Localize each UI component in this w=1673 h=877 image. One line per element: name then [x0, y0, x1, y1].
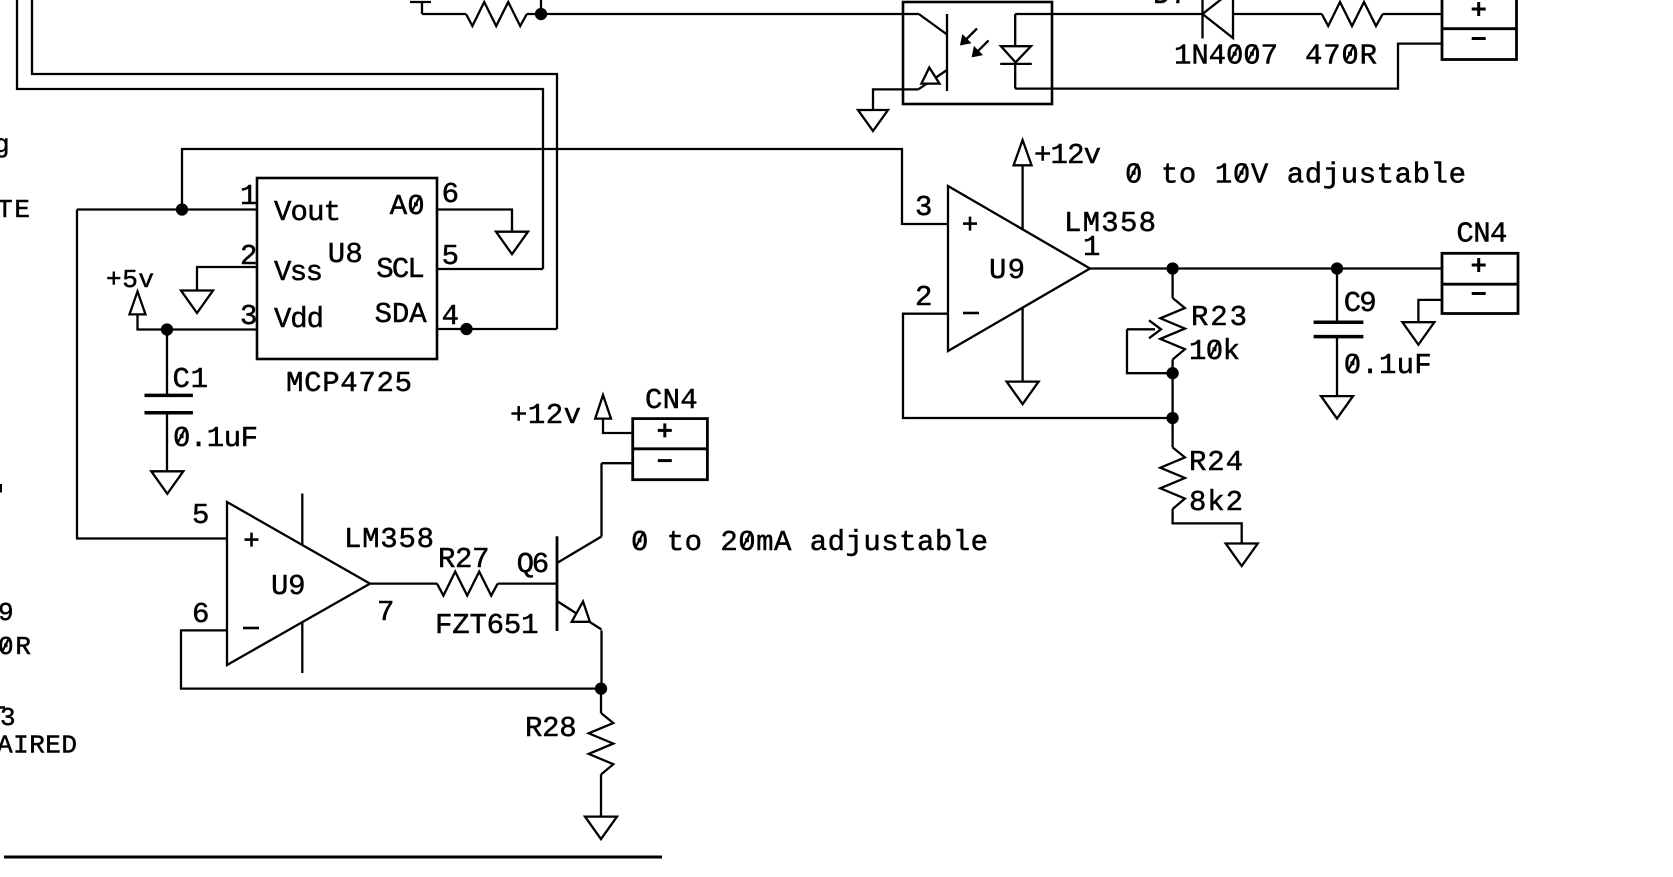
node output junction at C9	[1332, 264, 1342, 274]
svg-text:3: 3	[915, 191, 932, 224]
svg-text:g: g	[0, 130, 10, 160]
wire R24 to ground	[1173, 509, 1242, 544]
wire Vout down-left to op-amp pin 5	[77, 210, 227, 539]
wire opto LED anode to diode	[1052, 13, 1203, 15]
wire CN4 minus to Q6 collector	[602, 462, 633, 464]
wire CN minus to LED cathode	[1052, 44, 1442, 89]
wire SCL pin 5	[437, 268, 543, 270]
svg-text:+12v: +12v	[1034, 139, 1101, 172]
resistor R (top left, unlabeled)	[466, 2, 527, 26]
node emitter junction	[596, 684, 606, 694]
wire Q6 emitter down	[600, 630, 602, 688]
svg-text:TE: TE	[0, 195, 30, 225]
wire A0 pin 6 to ground	[437, 210, 512, 232]
node feedback junction	[1168, 413, 1178, 423]
ground (C1)	[151, 471, 183, 494]
resistor R27	[437, 572, 498, 596]
wire op-amp pin 6 feedback	[181, 630, 601, 688]
wire SDA pin 4	[437, 328, 557, 330]
wire +12v to op-amp V+	[1021, 165, 1023, 229]
svg-text:R27: R27	[438, 543, 490, 576]
wire stub from above into top resistor	[410, 2, 466, 14]
svg-text:+12v: +12v	[510, 399, 581, 432]
wire resistor to optocoupler	[527, 13, 903, 15]
wire I2C bus SDA from top-left	[32, 0, 557, 329]
svg-text:AIRED: AIRED	[0, 731, 77, 761]
svg-text:1: 1	[1083, 231, 1100, 264]
optocoupler U? box	[903, 2, 1052, 104]
svg-text:LM358: LM358	[1064, 207, 1156, 240]
svg-text:0.1uF: 0.1uF	[1344, 349, 1432, 382]
svg-text:1N4007: 1N4007	[1174, 39, 1278, 72]
ground (R24)	[1226, 544, 1258, 567]
label + (non-inverting input lower)	[245, 533, 259, 547]
svg-text:R23: R23	[1191, 301, 1247, 334]
wire +12v to CN4 plus	[603, 419, 633, 433]
capacitor C9	[1314, 269, 1364, 397]
wire op-amp pin 2 feedback	[903, 314, 1173, 418]
svg-text:Q6: Q6	[517, 548, 550, 581]
partial glyph (left margin, clipped)	[0, 484, 2, 493]
power +12v arrow (middle)	[595, 395, 611, 419]
node R23 bottom junction	[1168, 368, 1178, 378]
optocoupler phototransistor	[903, 14, 947, 91]
svg-text:CN4: CN4	[1456, 218, 1507, 251]
connector CN4 (middle)	[633, 419, 708, 480]
wire CN4 minus to ground	[1418, 300, 1442, 322]
svg-text:SDA: SDA	[375, 298, 428, 331]
svg-text:C1: C1	[173, 363, 209, 396]
svg-text:7: 7	[377, 596, 394, 629]
svg-text:0 to 20mA adjustable: 0 to 20mA adjustable	[631, 526, 988, 559]
svg-text:6: 6	[442, 178, 459, 211]
diode D7 1N4007	[1203, 0, 1234, 39]
label + (non-inverting input)	[963, 217, 977, 231]
node Vout junction	[177, 205, 187, 215]
svg-text:LM358: LM358	[344, 523, 434, 556]
R23 wiper arrow and strap	[1127, 320, 1173, 373]
wire Vout pin 1	[77, 208, 257, 210]
IC U8 MCP4725 box	[257, 178, 437, 359]
svg-text:1: 1	[240, 180, 257, 213]
optocoupler LED	[1000, 14, 1052, 89]
node Vdd junction	[162, 325, 172, 335]
node output junction at R23	[1168, 264, 1178, 274]
label - (inverting input)	[963, 312, 979, 315]
power +5v arrow	[130, 292, 146, 315]
svg-text:R24: R24	[1189, 446, 1243, 479]
label - (inverting input lower)	[243, 627, 259, 630]
wire Q6 collector to CN4	[600, 463, 602, 536]
svg-text:0.1uF: 0.1uF	[173, 422, 258, 455]
wire op-amp output to R27	[370, 582, 437, 584]
wire op-amp V- to ground	[1021, 308, 1023, 381]
connector CN4 (right)	[1442, 253, 1518, 313]
svg-text:MCP4725: MCP4725	[286, 367, 412, 400]
resistor R28	[589, 689, 614, 817]
resistor 470R	[1322, 2, 1383, 26]
svg-text:SCL: SCL	[376, 253, 425, 286]
partial glyph left of 3 (left margin)	[0, 706, 5, 709]
wire R23 to R24	[1171, 373, 1173, 447]
svg-text:3: 3	[240, 300, 257, 333]
op-amp U9 (lower half)	[227, 502, 370, 665]
transistor Q6	[557, 536, 602, 631]
ground (C9)	[1321, 396, 1353, 419]
wire opto emitter to ground	[873, 89, 903, 110]
resistor R24 8k2	[1160, 447, 1185, 509]
svg-text:Vout: Vout	[274, 196, 341, 229]
svg-text:Vss: Vss	[274, 256, 323, 289]
svg-text:C9: C9	[1344, 287, 1377, 320]
wire diode to resistor 470R	[1233, 13, 1322, 15]
capacitor C1	[145, 330, 193, 472]
svg-text:U9: U9	[989, 254, 1025, 287]
svg-text:2: 2	[915, 281, 932, 314]
ground (A0)	[496, 232, 528, 255]
node SDA junction	[462, 324, 472, 334]
svg-text:U8: U8	[328, 238, 363, 271]
wire 470R to connector	[1383, 13, 1442, 15]
wire op-amp output to CN4	[1090, 267, 1442, 269]
potentiometer R23 10k	[1160, 269, 1185, 374]
ground (R28)	[585, 817, 617, 840]
svg-text:Vdd: Vdd	[274, 303, 324, 336]
wire +5v to Vdd pin 3	[138, 314, 258, 329]
svg-text:8k2: 8k2	[1189, 486, 1243, 519]
svg-text:0 to 10V adjustable: 0 to 10V adjustable	[1125, 158, 1466, 191]
svg-text:A0: A0	[390, 190, 425, 223]
power +12v arrow (op-amp)	[1014, 140, 1032, 165]
op-amp V+ stub (lower)	[301, 494, 303, 546]
slashed zeros overlay	[2, 45, 1356, 652]
svg-text:470R: 470R	[1305, 39, 1377, 72]
ground (CN4 right)	[1402, 322, 1434, 345]
bottom border line	[4, 856, 662, 859]
op-amp U9 (upper half)	[948, 186, 1090, 351]
connector CN (top right)	[1442, 0, 1517, 60]
wire Vout up and across to op-amp pin 3	[182, 149, 948, 224]
wire R27 to Q6 base	[498, 582, 557, 584]
svg-text:9: 9	[0, 598, 14, 628]
svg-text:U9: U9	[271, 570, 306, 603]
svg-text:+5v: +5v	[106, 265, 154, 295]
svg-text:6: 6	[192, 598, 209, 631]
svg-text:D7: D7	[1153, 0, 1188, 12]
node junction on resistor output	[536, 0, 546, 19]
op-amp V- stub (lower)	[301, 622, 303, 673]
svg-text:10k: 10k	[1189, 335, 1240, 368]
ground (opto emitter)	[858, 110, 888, 131]
optocoupler light arrows	[960, 29, 989, 58]
ground (Vss)	[181, 291, 213, 314]
svg-text:FZT651: FZT651	[435, 609, 539, 642]
wire I2C bus SCL from top-left	[17, 0, 543, 269]
ground (op-amp)	[1007, 382, 1039, 405]
svg-text:5: 5	[192, 499, 209, 532]
svg-text:R28: R28	[525, 712, 577, 745]
wire Vss pin 2 to ground	[197, 267, 257, 291]
svg-text:CN4: CN4	[645, 384, 698, 417]
